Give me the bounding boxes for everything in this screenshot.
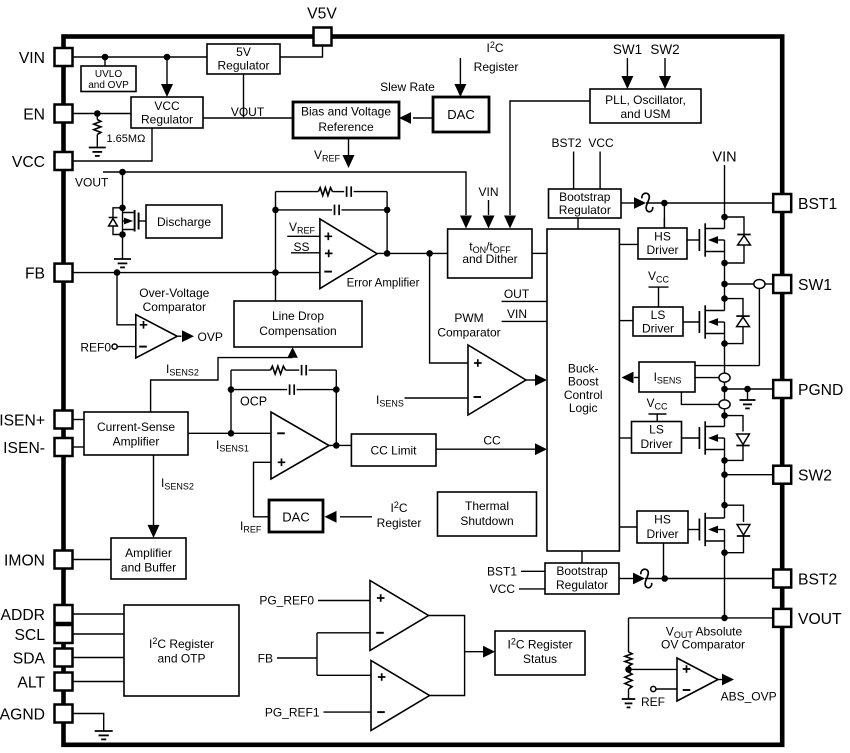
svg-text:Shutdown: Shutdown	[460, 514, 513, 528]
svg-text:Reference: Reference	[318, 120, 374, 134]
svg-text:and OVP: and OVP	[88, 80, 129, 91]
svg-text:Line Drop: Line Drop	[272, 309, 324, 323]
svg-text:and Buffer: and Buffer	[121, 561, 176, 575]
svg-text:Register: Register	[474, 60, 519, 74]
svg-text:Boost: Boost	[568, 375, 599, 389]
svg-text:SW1: SW1	[613, 42, 642, 57]
svg-text:PGND: PGND	[798, 382, 843, 399]
svg-text:and USM: and USM	[620, 107, 670, 121]
svg-text:VOUT: VOUT	[75, 176, 109, 190]
svg-text:Amplifier: Amplifier	[113, 435, 160, 449]
svg-text:V5V: V5V	[307, 6, 337, 23]
svg-text:VCC: VCC	[490, 582, 516, 596]
svg-text:VIN: VIN	[478, 185, 498, 199]
svg-text:VOUT: VOUT	[798, 611, 842, 628]
svg-text:Driver: Driver	[647, 243, 679, 257]
svg-text:Regulator: Regulator	[559, 203, 611, 217]
svg-text:Over-Voltage: Over-Voltage	[139, 286, 209, 300]
svg-text:Bootstrap: Bootstrap	[559, 190, 611, 204]
svg-text:SS: SS	[294, 240, 310, 254]
svg-text:FB: FB	[258, 652, 273, 666]
svg-text:EN: EN	[23, 107, 45, 124]
svg-text:UVLO: UVLO	[95, 69, 122, 80]
svg-text:DAC: DAC	[447, 107, 474, 122]
svg-text:DAC: DAC	[282, 510, 309, 525]
svg-text:OCP: OCP	[240, 395, 267, 409]
svg-text:Regulator: Regulator	[556, 578, 608, 592]
svg-text:ABS_OVP: ABS_OVP	[721, 690, 777, 704]
svg-text:VIN: VIN	[507, 307, 527, 321]
svg-text:BST1: BST1	[798, 196, 837, 213]
svg-text:BST2: BST2	[798, 572, 837, 589]
svg-text:Discharge: Discharge	[157, 215, 211, 229]
svg-text:CC Limit: CC Limit	[370, 444, 417, 458]
svg-text:Error Amplifier: Error Amplifier	[347, 277, 420, 289]
svg-text:VIN: VIN	[712, 150, 736, 166]
svg-text:PG_REF1: PG_REF1	[265, 706, 320, 720]
svg-text:VCC: VCC	[154, 99, 180, 113]
svg-text:Status: Status	[523, 652, 557, 666]
svg-text:5V: 5V	[236, 45, 251, 59]
svg-text:PWM: PWM	[454, 311, 483, 325]
svg-text:SW2: SW2	[798, 468, 832, 485]
svg-text:Comparator: Comparator	[143, 300, 206, 314]
svg-text:Register: Register	[377, 516, 422, 530]
svg-text:VCC: VCC	[12, 154, 45, 171]
svg-text:Logic: Logic	[569, 401, 598, 415]
svg-text:PLL, Oscillator,: PLL, Oscillator,	[605, 93, 686, 107]
svg-text:Buck-: Buck-	[568, 362, 599, 376]
svg-text:REF0: REF0	[80, 341, 111, 355]
svg-text:Control: Control	[564, 388, 603, 402]
svg-text:I2C: I2C	[390, 500, 407, 515]
svg-text:LS: LS	[651, 308, 666, 322]
svg-text:OVP: OVP	[198, 330, 223, 344]
svg-text:Driver: Driver	[642, 322, 674, 336]
svg-text:PG_REF0: PG_REF0	[259, 594, 314, 608]
svg-text:ISEN+: ISEN+	[0, 413, 45, 430]
svg-text:OV Comparator: OV Comparator	[661, 638, 745, 652]
svg-text:SCL: SCL	[14, 627, 45, 644]
svg-text:Driver: Driver	[647, 527, 679, 541]
svg-text:VIN: VIN	[19, 50, 45, 67]
svg-text:Driver: Driver	[641, 437, 673, 451]
svg-text:VCC: VCC	[588, 136, 614, 150]
svg-text:1.65MΩ: 1.65MΩ	[107, 133, 146, 145]
svg-text:HS: HS	[654, 513, 671, 527]
svg-text:Thermal: Thermal	[465, 499, 509, 513]
svg-text:ADDR: ADDR	[1, 607, 45, 624]
svg-text:BST2: BST2	[551, 136, 581, 150]
svg-text:Compensation: Compensation	[259, 324, 336, 338]
svg-text:Regulator: Regulator	[141, 113, 193, 127]
svg-text:I2C Register: I2C Register	[149, 636, 214, 651]
svg-text:and Dither: and Dither	[462, 252, 517, 266]
svg-text:Bootstrap: Bootstrap	[556, 564, 608, 578]
svg-text:REF: REF	[641, 695, 665, 709]
svg-text:AGND: AGND	[0, 707, 45, 724]
svg-text:ISEN-: ISEN-	[3, 440, 45, 457]
svg-text:Bias and Voltage: Bias and Voltage	[301, 105, 391, 119]
svg-text:OUT: OUT	[504, 287, 530, 301]
svg-text:SDA: SDA	[13, 651, 46, 668]
svg-text:ALT: ALT	[17, 675, 45, 692]
svg-text:I2C Register: I2C Register	[507, 637, 572, 652]
svg-text:I2C: I2C	[486, 40, 503, 55]
svg-text:HS: HS	[654, 230, 671, 244]
svg-text:Slew Rate: Slew Rate	[380, 80, 435, 94]
svg-text:SW1: SW1	[798, 277, 832, 294]
svg-text:FB: FB	[25, 266, 45, 283]
svg-text:Comparator: Comparator	[437, 326, 500, 340]
svg-text:IMON: IMON	[4, 553, 45, 570]
svg-text:CC: CC	[483, 434, 501, 448]
svg-text:VOUT: VOUT	[231, 105, 265, 119]
svg-text:LS: LS	[649, 423, 664, 437]
svg-text:and OTP: and OTP	[157, 652, 205, 666]
svg-text:Amplifier: Amplifier	[125, 546, 172, 560]
svg-text:BST1: BST1	[487, 565, 517, 579]
svg-text:Current-Sense: Current-Sense	[97, 420, 175, 434]
svg-text:Regulator: Regulator	[217, 59, 269, 73]
svg-text:SW2: SW2	[650, 42, 679, 57]
